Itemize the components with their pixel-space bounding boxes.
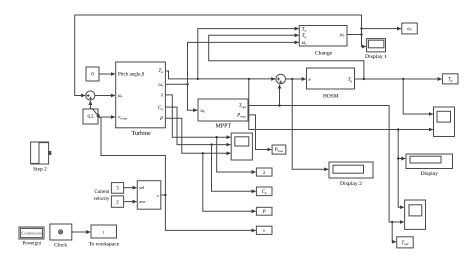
wire Sum2 to HOSM (e) bbox=[286, 78, 306, 80]
wire Turbine lambda to Scope1 input 1 bbox=[165, 95, 230, 137]
svg-text:velocity: velocity bbox=[94, 197, 110, 202]
junction T_a row to Change bbox=[197, 78, 199, 80]
step block Step 2 bbox=[31, 142, 49, 164]
svg-text:Display: Display bbox=[420, 171, 438, 177]
constant 0 bbox=[86, 67, 99, 81]
constant 3 bbox=[111, 183, 123, 194]
svg-text:Tg: Tg bbox=[348, 78, 353, 83]
svg-text:Cp: Cp bbox=[158, 106, 163, 111]
HOSM block bbox=[307, 68, 355, 89]
wire Turbine omega_t output stub bbox=[165, 83, 187, 85]
wire Turbine C_p to Scope1 input 2 bbox=[165, 107, 230, 145]
MPPT block bbox=[198, 99, 248, 121]
svg-text:Change: Change bbox=[315, 51, 333, 57]
block name labels bbox=[23, 51, 439, 249]
wire selector output bbox=[161, 194, 166, 196]
wire T_a branch down long row to Scope A input 2 bbox=[249, 79, 433, 130]
HOSM port labels bbox=[309, 78, 353, 83]
sum sign marks bbox=[87, 78, 283, 100]
wire to goto omega_t bbox=[362, 28, 402, 30]
junction omega_t stub bbox=[186, 83, 188, 85]
svg-text:Topt: Topt bbox=[239, 104, 247, 109]
svg-text:v: v bbox=[157, 193, 159, 198]
wire T_g feedback up to Change input 2 bbox=[209, 35, 364, 79]
wire e branch down to Display 2 bbox=[292, 79, 328, 169]
wire C_p branch to goto C_p bbox=[212, 145, 256, 192]
wire constant 0 to Turbine pitch input bbox=[99, 73, 115, 75]
wire v to goto v bbox=[165, 195, 255, 230]
svg-text:Display 2: Display 2 bbox=[340, 181, 362, 187]
svg-text:HOSM: HOSM bbox=[323, 94, 339, 100]
svg-text:Pmax: Pmax bbox=[274, 148, 284, 153]
junction T_opt row to Sum2 bbox=[278, 104, 280, 106]
wire Change output bbox=[347, 34, 362, 36]
clock icon bbox=[59, 230, 63, 234]
svg-text:Powergui: Powergui bbox=[23, 242, 42, 247]
goto P_max bbox=[272, 145, 286, 154]
junction Change output bbox=[360, 33, 362, 35]
goto omega_t bbox=[402, 23, 418, 34]
junction T_g to scope A bbox=[402, 78, 404, 80]
junction T_a row down branch bbox=[248, 78, 250, 80]
goto T_g bbox=[442, 74, 458, 84]
sum S2 bbox=[276, 74, 286, 84]
wire constant 0.5 to Sum1 bbox=[89, 101, 91, 109]
svg-text:Tg: Tg bbox=[448, 78, 453, 83]
wire MPPT P_max to goto P_max bbox=[248, 115, 271, 150]
constant 0.5 bbox=[83, 109, 98, 124]
powergui block bbox=[19, 227, 44, 239]
goto v bbox=[256, 226, 272, 234]
wire Turbine P to Scope1 input 3 bbox=[165, 118, 230, 153]
svg-text:Continuous: Continuous bbox=[21, 231, 42, 236]
svg-text:To workspace: To workspace bbox=[89, 241, 120, 247]
svg-text:Clock: Clock bbox=[54, 243, 67, 249]
wire T_opt branch up to Sum2 bbox=[279, 85, 281, 106]
turbine block bbox=[116, 62, 166, 128]
current velocity label bbox=[94, 190, 110, 202]
turbine port labels bbox=[118, 72, 145, 120]
goto lambda bbox=[256, 168, 272, 176]
sum S1 bbox=[86, 91, 95, 100]
svg-text:Display 1: Display 1 bbox=[365, 54, 387, 60]
scope B bbox=[405, 200, 426, 229]
svg-text:Topt: Topt bbox=[402, 241, 410, 246]
wire switch lever diagonal over constant 0.5 bbox=[92, 108, 100, 118]
clock block bbox=[50, 224, 72, 240]
wire Clock to To workspace bbox=[72, 231, 90, 233]
svg-text:Current: Current bbox=[94, 190, 110, 195]
wire Sum1 to Turbine omega input bbox=[95, 95, 115, 97]
step icon inside Step 2 bbox=[31, 143, 51, 164]
to-workspace block bbox=[91, 225, 117, 238]
svg-text:ave: ave bbox=[139, 199, 145, 204]
wire branch down to Scope B input 1 bbox=[398, 130, 404, 208]
wire HOSM output T_g to goto T_g bbox=[355, 78, 442, 80]
wire constant 2 to selector ave bbox=[124, 201, 137, 203]
wire feedback loop from Change output to Sum1 bbox=[75, 15, 362, 96]
wire constant 3 to selector sel bbox=[124, 187, 137, 189]
wire T_g branch down to Scope A input 1 bbox=[403, 79, 433, 114]
svg-text:Turbine: Turbine bbox=[131, 130, 151, 137]
svg-text:Pitch angle β: Pitch angle β bbox=[118, 72, 145, 77]
scope 1 bbox=[231, 133, 252, 160]
junction C_p row bbox=[210, 143, 212, 145]
goto T_opt bbox=[397, 237, 414, 248]
svg-text:Step 2: Step 2 bbox=[33, 167, 47, 173]
change block bbox=[299, 26, 347, 47]
junction e wire bbox=[291, 78, 293, 80]
display 2 bbox=[329, 162, 373, 178]
svg-text:Ta: Ta bbox=[158, 69, 163, 74]
wire omega_t up to Change input 3 bbox=[188, 42, 299, 84]
junction selector output bbox=[164, 194, 166, 196]
wire P branch to goto P bbox=[203, 153, 256, 211]
wire Turbine T_a to Sum2 bbox=[165, 71, 275, 79]
goto C_p bbox=[256, 187, 272, 196]
junction to Display bbox=[397, 157, 399, 159]
junction P row bbox=[202, 152, 204, 154]
constant 2 bbox=[111, 196, 123, 207]
junction T_g feedback bbox=[363, 78, 365, 80]
wire T_a branch up to Change input 1 bbox=[198, 29, 299, 79]
svg-text:P: P bbox=[262, 210, 266, 215]
constant values bbox=[87, 73, 119, 206]
MPPT port labels bbox=[201, 104, 248, 118]
svg-text:vwind: vwind bbox=[118, 115, 127, 120]
wire v to Turbine v_wind input bbox=[101, 117, 165, 195]
goto P bbox=[256, 207, 272, 215]
display 1 bbox=[367, 39, 386, 52]
svg-text:P: P bbox=[159, 117, 163, 122]
goto tag labels bbox=[262, 27, 453, 246]
wire T_opt branch down to goto T_opt bbox=[392, 222, 396, 242]
junction long row to scope B bbox=[397, 128, 399, 130]
display bbox=[406, 154, 453, 169]
wire branch to Display bbox=[398, 158, 405, 160]
svg-text:ωt: ωt bbox=[118, 94, 123, 99]
svg-text:Pmax: Pmax bbox=[236, 114, 246, 119]
Change port labels bbox=[302, 27, 346, 46]
wire to Display 1 bbox=[362, 46, 366, 48]
wire omega_t down to MPPT input bbox=[188, 84, 198, 110]
svg-text:Cp: Cp bbox=[262, 190, 267, 195]
svg-text:sel: sel bbox=[139, 185, 145, 190]
wire lambda branch to goto lambda bbox=[217, 137, 256, 172]
svg-text:MPPT: MPPT bbox=[215, 124, 231, 130]
junction on goto omega wire bbox=[360, 27, 362, 29]
svg-text:Tg: Tg bbox=[302, 34, 307, 39]
svg-text:0.5: 0.5 bbox=[87, 115, 94, 120]
junction T_opt to goto bbox=[391, 221, 393, 223]
scope A bbox=[434, 107, 455, 137]
selector block bbox=[137, 181, 161, 210]
wire MPPT T_opt to Scope B input 2 bbox=[248, 106, 404, 223]
selector port labels bbox=[139, 185, 159, 204]
junction lambda row bbox=[216, 136, 218, 138]
svg-text:λ: λ bbox=[262, 171, 265, 176]
svg-text:Ta: Ta bbox=[302, 27, 307, 32]
